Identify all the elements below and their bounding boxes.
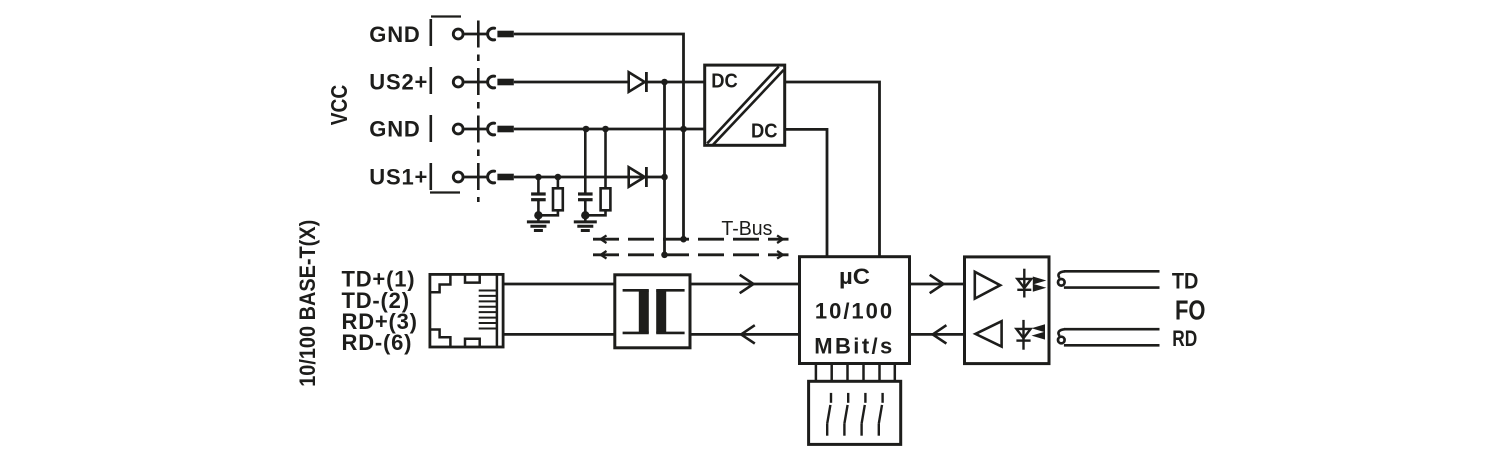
svg-text:RD-(6): RD-(6) [342, 330, 413, 355]
svg-text:DC: DC [711, 70, 738, 93]
svg-text:10/100: 10/100 [815, 298, 894, 323]
svg-text:US2+: US2+ [369, 69, 428, 94]
svg-text:10/100 BASE-T(X): 10/100 BASE-T(X) [295, 220, 320, 387]
svg-text:RD: RD [1172, 326, 1197, 351]
svg-text:VCC: VCC [326, 85, 352, 126]
svg-text:GND: GND [369, 117, 420, 142]
svg-text:DC: DC [751, 120, 778, 143]
svg-text:T-Bus: T-Bus [721, 217, 772, 240]
svg-text:FO: FO [1175, 295, 1206, 326]
svg-text:GND: GND [369, 22, 420, 47]
svg-text:TD: TD [1172, 268, 1199, 293]
svg-text:US1+: US1+ [369, 165, 428, 190]
svg-text:µC: µC [839, 264, 870, 289]
svg-text:MBit/s: MBit/s [814, 333, 894, 358]
